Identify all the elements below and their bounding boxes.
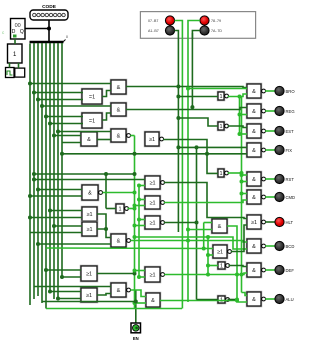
wire G5 out to G6b — [97, 139, 111, 141]
wire bus1 to G2a — [34, 92, 83, 94]
wire bus bit 1 — [33, 43, 35, 299]
wire R9 to LED DEF — [265, 269, 275, 271]
wire bus0 to G7b — [30, 195, 82, 197]
inverter G8 — [115, 203, 128, 214]
junction bus7 G13b — [56, 297, 60, 301]
wire V178 to G15 — [178, 96, 218, 98]
wire V241 stub R5b — [242, 181, 248, 183]
nand-gate G6 — [110, 128, 130, 143]
junction bus0 G9b — [28, 216, 32, 220]
LED CMD — [275, 192, 284, 201]
svg-text:&: & — [252, 195, 256, 201]
wire bus bit 4 — [45, 43, 47, 309]
junction V241 R6a — [240, 192, 244, 196]
junction V188 G21b — [186, 228, 190, 232]
wire net V106a — [105, 174, 107, 209]
wire G16 out to R3a — [228, 126, 248, 128]
wire G11 out to R8a — [130, 241, 247, 243]
wire G20 out — [160, 300, 237, 302]
output gate R7 (HLT) — [246, 214, 265, 230]
junction EN G27a — [137, 218, 141, 222]
wire G7 out — [103, 192, 135, 194]
or-gate G12 — [80, 265, 98, 282]
wire net y147 — [178, 146, 247, 148]
svg-text:FIX: FIX — [286, 148, 293, 153]
wire R3 to LED EST — [265, 130, 275, 132]
wire bus0 to G10b — [30, 232, 82, 234]
wire bus bit 5 — [49, 43, 51, 292]
wire net V194 — [191, 33, 193, 107]
junction G24out V237 — [235, 298, 239, 302]
wire V134 to G27b — [135, 225, 146, 227]
nor-gate G25 — [144, 175, 164, 190]
wire V208 to G22b — [208, 254, 213, 256]
output gate R2 (REG) — [246, 103, 265, 119]
junction bus3 G3a — [40, 104, 44, 108]
inverter G23 — [217, 261, 229, 270]
junction V178 G15 — [176, 95, 180, 99]
DIP switch CODE — [30, 10, 68, 20]
wire G26 out to R6b — [164, 200, 247, 203]
svg-text:ALU: ALU — [286, 297, 294, 302]
wire V134 to G26b — [135, 205, 146, 207]
svg-text:≥1: ≥1 — [217, 249, 223, 255]
junction bus4 G12a — [44, 268, 48, 272]
junction bus7 G6a — [56, 130, 60, 134]
svg-text:&: & — [117, 238, 121, 244]
wire V241 to R10a — [242, 293, 248, 296]
LED ALU — [275, 294, 284, 303]
counter U1 — [11, 19, 26, 40]
junction bus4 G4a — [44, 115, 48, 119]
junction V134 G19a — [133, 269, 137, 273]
LED FIX — [275, 145, 284, 154]
wire bus4 to G4a — [46, 116, 83, 118]
svg-text:&: & — [117, 107, 121, 113]
wire G8 out — [128, 208, 135, 210]
svg-text:8: 8 — [66, 35, 68, 39]
wire bus6 to G10a — [54, 225, 82, 227]
wire G10 out to G11a — [97, 229, 111, 238]
nor-gate G19 — [144, 266, 164, 283]
svg-text:1: 1 — [118, 206, 121, 212]
junction y174 bus1 — [32, 172, 36, 176]
wire net V196 — [196, 147, 198, 299]
junction bus6 G10a — [52, 224, 56, 228]
wire bus5 to G4b — [50, 123, 83, 125]
junction bus0 G7b — [28, 194, 32, 198]
wire from LED A1..B7 — [175, 31, 179, 40]
svg-text:=1: =1 — [89, 118, 95, 124]
wire V134 to G20b — [135, 302, 147, 304]
wire G9 out — [97, 214, 106, 229]
wire V208 to G23 — [208, 265, 218, 267]
flip-flop U2 — [8, 44, 23, 63]
nand-gate G11 — [110, 233, 130, 248]
wire bus1 to G14a — [34, 286, 111, 288]
wire G4 out to G3b — [102, 113, 111, 120]
wire R2 to LED REG — [265, 110, 275, 112]
wire EN to G26a — [139, 199, 145, 201]
svg-text:&: & — [252, 89, 256, 95]
inverter G15 — [217, 91, 228, 101]
wire bus to splitter — [48, 29, 50, 42]
junction y237 V134 — [133, 235, 137, 239]
svg-text:1: 1 — [219, 171, 222, 177]
junction y153 V134 — [133, 152, 137, 156]
nor-gate G18 — [144, 131, 163, 147]
svg-text:&: & — [117, 85, 121, 91]
junction V178 y118 — [176, 116, 180, 120]
junction bus2 G7a — [36, 188, 40, 192]
junction V134 G27b — [133, 224, 137, 228]
inverter G16 — [217, 121, 228, 131]
inverter G24 — [217, 295, 229, 304]
wire bus1 to G25a — [34, 179, 145, 181]
wire G24 out — [228, 299, 238, 301]
wire net bottom y308 — [46, 308, 182, 310]
xor-gate G4 — [81, 112, 103, 129]
wire bus2 to G2b — [38, 99, 83, 101]
junction bus5 G4b — [48, 122, 52, 126]
wire U2 to clock — [9, 63, 11, 68]
wire bus bit 7 — [57, 43, 59, 299]
wire bus2 to G7a — [38, 189, 82, 191]
wire net EN stem — [135, 290, 137, 323]
output gate R10 (ALU) — [246, 291, 265, 307]
output gate R4 (FIX) — [246, 142, 265, 158]
wire R4 to LED FIX — [265, 149, 275, 151]
svg-text:≥1: ≥1 — [149, 220, 155, 226]
nor-gate G27 — [144, 215, 164, 230]
wire net V241 — [241, 97, 243, 293]
wire bus4 to G12a — [46, 269, 81, 271]
junction bus1 G2a — [32, 91, 36, 95]
wire net y237 to R8b — [135, 237, 248, 249]
svg-text:&: & — [117, 133, 121, 139]
nand-gate G7 — [81, 184, 102, 201]
junction G11out V188 — [186, 239, 190, 243]
wire bus7 to G13b — [58, 298, 81, 300]
wire net V178 — [177, 39, 179, 232]
wire G3 out to R2a — [126, 108, 247, 110]
svg-text:1: 1 — [220, 263, 223, 269]
wire bus8 to G5b — [62, 142, 81, 144]
svg-text:1: 1 — [219, 94, 222, 100]
junction V208 y237 — [206, 235, 210, 239]
wire R10 to LED ALU — [265, 298, 275, 300]
junction V208 G23 — [206, 264, 210, 268]
nand-gate G14 — [110, 282, 130, 298]
svg-text:&: & — [87, 137, 91, 143]
output gate R3 (EST) — [246, 123, 265, 139]
wire bus2 to G11b — [38, 243, 111, 245]
wire bus3 to G3a — [42, 105, 111, 107]
and-gate G1 — [110, 79, 127, 95]
wire from LED 7A..7D — [192, 31, 200, 40]
junction G8out V134 — [133, 207, 137, 211]
clock CLK1 — [6, 68, 15, 78]
junction V237 y275 — [235, 273, 239, 277]
svg-text:BRO: BRO — [286, 89, 296, 94]
svg-text:7A..7D: 7A..7D — [211, 29, 222, 33]
junction G17out V241 — [240, 171, 244, 175]
junction V192 G3out — [190, 105, 194, 109]
wire R6 to LED CMD — [265, 196, 275, 198]
wire G25 out to R7a — [164, 183, 247, 219]
LED EST — [275, 126, 284, 135]
junction bus6 G5a — [52, 134, 56, 138]
junction bus0 G1a — [28, 82, 32, 86]
junction V237 G20out — [235, 299, 239, 303]
wire G2 out to G1b — [102, 91, 111, 97]
or-gate G13 — [80, 287, 98, 303]
wire G14 out to G20a — [130, 290, 146, 297]
junction bus2 G11b — [36, 242, 40, 246]
wire bus0 to G1a — [30, 83, 111, 85]
wire G6 out to V134 — [130, 135, 134, 137]
svg-text:&: & — [117, 288, 121, 294]
junction y88 V188 — [186, 87, 190, 91]
junction G1out V178 — [176, 85, 180, 89]
wire counter output — [25, 28, 49, 30]
wire EN to G25b — [139, 185, 145, 187]
svg-text:≥1: ≥1 — [149, 200, 155, 206]
wire V239 stub R2b — [240, 114, 248, 116]
svg-text:&: & — [151, 298, 155, 304]
wire from LED 01..B7 — [175, 21, 183, 40]
junction bus5 G9a — [48, 209, 52, 213]
button EN — [131, 323, 141, 333]
nor-gate G22 — [212, 244, 231, 259]
wire net V182 — [181, 39, 183, 309]
junction bus5 G13a — [48, 290, 52, 294]
wire long net y153 — [62, 153, 247, 155]
wire G13 out to G14b — [97, 294, 111, 296]
inverter G17 — [217, 168, 228, 178]
xor-gate G2 — [81, 88, 103, 105]
junction G7out V134 — [133, 191, 137, 195]
output gate R1 (BRO) — [246, 83, 265, 99]
wire net V186 — [187, 39, 189, 302]
svg-text:CMD: CMD — [286, 195, 296, 200]
junction y174 V134 — [133, 172, 137, 176]
svg-text:≥1: ≥1 — [86, 227, 92, 233]
output gate R8 (BCD) — [246, 238, 265, 254]
wire G21 out to V237 — [227, 226, 247, 302]
svg-text:&: & — [252, 177, 256, 183]
svg-text:78..79: 78..79 — [211, 19, 221, 23]
wire R8 to LED BCD — [265, 245, 275, 247]
LED REG — [275, 106, 284, 115]
wire DIP stem — [48, 20, 50, 29]
wire G18 out to G17 — [163, 140, 218, 174]
wire bus5 to G13a — [50, 291, 81, 293]
svg-text:&: & — [252, 148, 256, 154]
wire G19 out to R9b — [164, 273, 247, 275]
svg-text:1: 1 — [219, 124, 222, 130]
junction EN y301 — [134, 300, 138, 304]
LED range 01..B7 — [165, 16, 174, 25]
wire bus bit 8 — [61, 43, 63, 277]
indicator box frame — [140, 12, 255, 39]
junction y174 V106 — [104, 172, 108, 176]
wire net V134 — [134, 136, 136, 309]
svg-text:CODE: CODE — [42, 4, 57, 10]
junction bus8 G12b — [60, 275, 64, 279]
wire bus bit 6 — [53, 43, 55, 299]
svg-text:&: & — [252, 268, 256, 274]
LED range A1..B7 — [165, 26, 174, 35]
wire R1 to LED BRO — [265, 90, 275, 92]
svg-text:&: & — [252, 109, 256, 115]
junction V241 R5b — [240, 180, 244, 184]
svg-text:&: & — [88, 190, 92, 196]
LED BCD — [275, 241, 284, 250]
wire bus6 to G5a — [54, 135, 81, 137]
wire V239 stub R3b — [240, 133, 248, 135]
junction V208 G22b — [206, 253, 210, 257]
junction y147 V178 — [176, 145, 180, 149]
wire V134 to G19a — [135, 270, 146, 272]
svg-text:=1: =1 — [89, 94, 95, 100]
svg-text:&: & — [252, 129, 256, 135]
wire V241 stub R6a — [242, 193, 248, 195]
svg-text:07..B7: 07..B7 — [148, 19, 158, 23]
LED RST — [275, 174, 284, 183]
wire V203 to G21a — [204, 222, 212, 224]
LED DEF — [275, 265, 284, 274]
svg-text:A1..B7: A1..B7 — [148, 29, 159, 33]
svg-text:REG: REG — [286, 109, 295, 114]
wire bus8 to G12b — [62, 276, 81, 278]
wire long net y174 — [34, 173, 135, 175]
junction EN G25b — [137, 184, 141, 188]
svg-text:BCD: BCD — [286, 244, 295, 249]
output gate R5 (RST) — [246, 171, 265, 187]
svg-text:≥1: ≥1 — [149, 272, 155, 278]
svg-text:EST: EST — [286, 129, 295, 134]
wire G24 input — [197, 299, 219, 301]
junction V241 y274 — [240, 273, 244, 277]
wire net bottom y301 — [42, 301, 136, 303]
wire G1 out to R1a — [126, 87, 247, 88]
svg-text:≥1: ≥1 — [86, 212, 92, 218]
wire bus7 to G6a — [58, 131, 111, 133]
junction V241 R5a — [240, 173, 244, 177]
junction EN G19b — [137, 275, 141, 279]
wire net V239 — [239, 97, 241, 135]
splitter S1 — [30, 35, 69, 42]
svg-text:&: & — [252, 297, 256, 303]
wire net V208b — [207, 237, 209, 275]
svg-text:&: & — [218, 224, 222, 230]
junction V208 y274 — [206, 273, 210, 277]
and-gate G21 — [211, 218, 228, 234]
wire G27 out — [164, 222, 197, 224]
wire G17 out — [228, 172, 242, 174]
junction y147 V196 — [195, 145, 199, 149]
wire G23 out to R9a — [229, 266, 248, 267]
junction G15out V239 — [238, 95, 242, 99]
wire G15 out to R1b — [228, 94, 248, 97]
wire V188 to G21b — [188, 229, 212, 231]
wire R7 to LED HLT — [265, 221, 275, 223]
wire net y248 to G22a — [46, 247, 213, 250]
junction V203 y248 — [202, 247, 206, 251]
LED BRO — [275, 86, 284, 95]
svg-text:DEF: DEF — [286, 268, 295, 273]
LED range 78..79 — [200, 16, 209, 25]
wire V178 to G16 — [178, 118, 218, 126]
svg-text:&: & — [252, 244, 256, 250]
wire net V203 — [203, 223, 205, 249]
wire V241 stub R5a — [242, 174, 248, 176]
junction y153 bus8 — [60, 152, 64, 156]
junction V134 G26b — [133, 204, 137, 208]
wire counter D stem — [14, 39, 16, 44]
wire from LED 78..79 — [188, 21, 200, 40]
wire R5 to LED RST — [265, 178, 275, 180]
svg-text:≥1: ≥1 — [251, 220, 257, 226]
svg-text:HLT: HLT — [286, 220, 294, 225]
nor-gate G26 — [144, 195, 164, 210]
wire bus bit 2 — [37, 43, 39, 296]
svg-text:≥1: ≥1 — [149, 180, 155, 186]
svg-text:≥1: ≥1 — [149, 137, 155, 143]
wire bus0 to G9b — [30, 217, 82, 219]
junction V239 R2b — [238, 113, 242, 117]
wire U2 to U3 — [18, 63, 20, 68]
and-gate G5 — [80, 131, 98, 147]
junction G12out V134 — [133, 272, 137, 276]
wire EN to G19b — [139, 276, 145, 278]
junction bus2 G2b — [36, 98, 40, 102]
junction EN G26a — [137, 198, 141, 202]
and-gate G20 — [145, 292, 161, 308]
junction G27out V196 — [195, 221, 199, 225]
wire net EN line — [138, 186, 140, 278]
junction V134 G20b — [133, 301, 137, 305]
wire net y88 — [188, 88, 247, 90]
or-gate G9 — [81, 206, 98, 222]
LED HLT — [275, 217, 284, 226]
output gate R6 (CMD) — [246, 189, 265, 205]
svg-text:D: D — [12, 29, 16, 35]
junction V239 R3b — [238, 132, 242, 136]
wire bus bit 0 — [29, 44, 31, 306]
LED range 7A..7D — [200, 26, 209, 35]
wire G22 out to R7b — [231, 225, 247, 252]
junction y153 x207 — [205, 152, 209, 156]
component U3 — [15, 68, 25, 77]
svg-text:RST: RST — [286, 177, 295, 182]
svg-text:≥1: ≥1 — [86, 293, 92, 299]
wire EN to G27a — [139, 219, 145, 221]
junction bus1 G25a — [32, 178, 36, 182]
wire bus5 to G9a — [50, 210, 82, 212]
output gate R9 (DEF) — [246, 262, 265, 278]
svg-text:EN: EN — [133, 336, 139, 341]
wire G12 out — [97, 273, 135, 275]
and-gate G3 — [110, 102, 127, 117]
wire V106 to G8 — [106, 208, 116, 210]
svg-text:Q: Q — [20, 29, 24, 35]
svg-text:≥1: ≥1 — [86, 271, 92, 277]
junction G10 out — [104, 227, 108, 231]
or-gate G10 — [81, 221, 98, 237]
junction at DIP stem — [47, 27, 51, 31]
